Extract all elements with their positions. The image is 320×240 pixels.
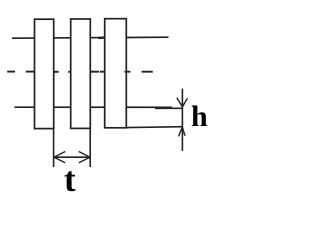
centerline dash 4 [68, 71, 71, 73]
centerline dash 3 [53, 71, 58, 73]
arrowhead h top [177, 98, 188, 107]
label h [191, 100, 208, 134]
arrowhead t right [79, 152, 90, 163]
arrowhead t left [54, 152, 65, 163]
centerline dash 7 crossing fin right edge [125, 71, 131, 73]
overshoot tick on top line at fin F3 [99, 36, 105, 39]
centerline dash 1 [7, 71, 15, 73]
tube outer surface top line [12, 37, 169, 38]
extension line for h at fin tip [126, 126, 183, 129]
centerline dash 2 [26, 71, 35, 73]
label t [64, 160, 76, 200]
extension line left for t [53, 129, 55, 167]
fin F2 [71, 19, 91, 128]
dimension line t [54, 156, 90, 158]
fin F3 [105, 19, 127, 128]
extension line for h at tube surface [155, 107, 183, 109]
dimension line h [181, 89, 183, 151]
extension line right for t [89, 128, 91, 167]
centerline dash 8 [142, 71, 153, 73]
arrowhead h bottom [179, 127, 186, 136]
centerline dash 5 [91, 71, 99, 73]
fin F1 [35, 19, 54, 128]
tube outer surface bottom line [15, 106, 173, 108]
centerline dash 6 [100, 71, 105, 73]
